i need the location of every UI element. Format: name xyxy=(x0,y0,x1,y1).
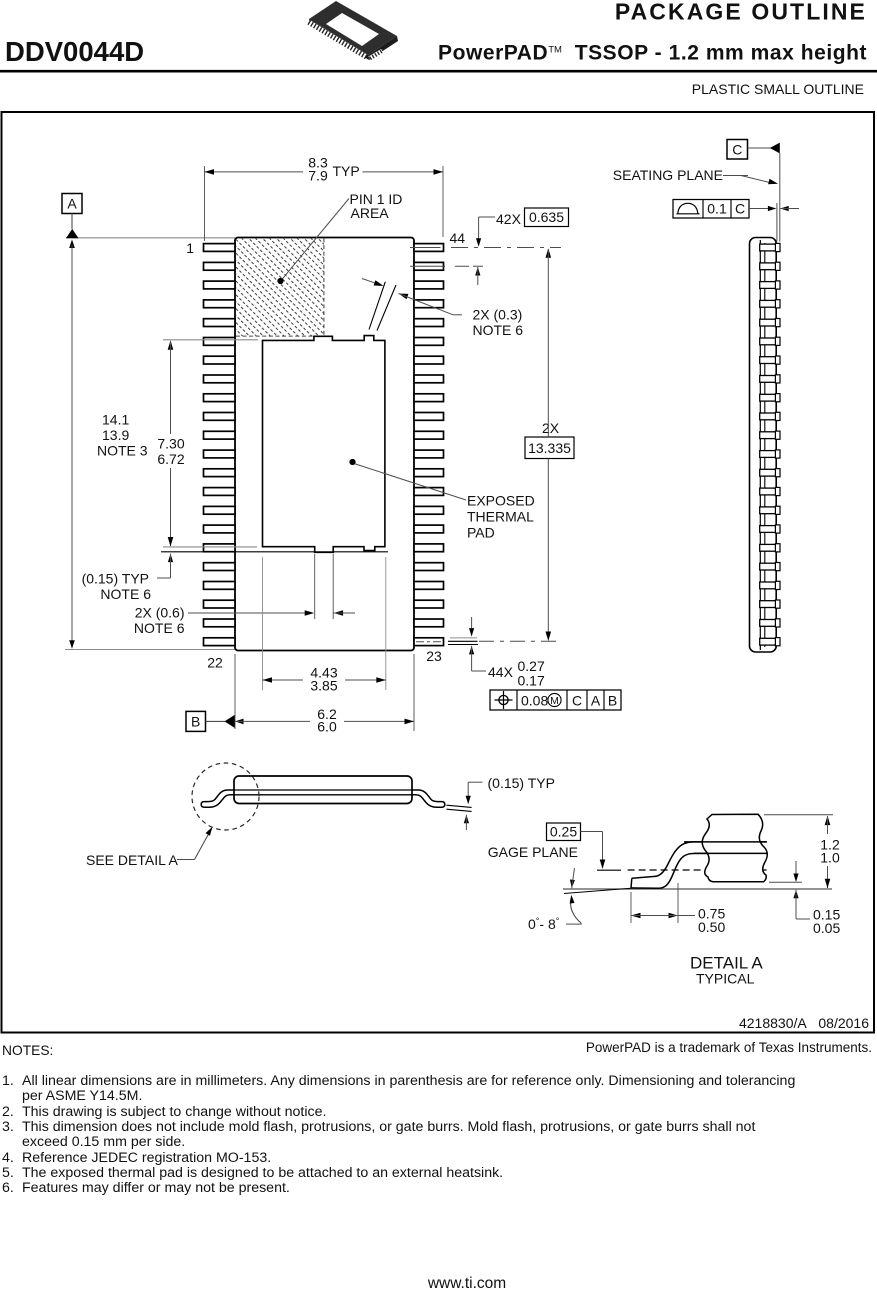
svg-text:13.335: 13.335 xyxy=(528,440,571,456)
svg-text:0.17: 0.17 xyxy=(518,673,545,689)
svg-text:1: 1 xyxy=(186,240,194,256)
svg-text:(0.15) TYP: (0.15) TYP xyxy=(82,571,149,587)
svg-text:GAGE PLANE: GAGE PLANE xyxy=(488,844,578,860)
svg-text:SEE DETAIL A: SEE DETAIL A xyxy=(86,852,178,868)
svg-text:23: 23 xyxy=(426,648,442,664)
svg-text:TYPICAL: TYPICAL xyxy=(696,971,755,987)
svg-text:DDV0044D: DDV0044D xyxy=(5,36,144,67)
svg-text:6.72: 6.72 xyxy=(157,451,184,467)
svg-text:6.0: 6.0 xyxy=(317,719,337,735)
svg-text:13.9: 13.9 xyxy=(102,427,129,443)
svg-text:0°- 8°: 0°- 8° xyxy=(528,916,560,932)
svg-text:NOTE 6: NOTE 6 xyxy=(473,322,524,338)
svg-text:0.635: 0.635 xyxy=(529,209,564,225)
svg-text:7.30: 7.30 xyxy=(157,436,184,452)
svg-text:NOTE 6: NOTE 6 xyxy=(100,586,151,602)
svg-text:AREA: AREA xyxy=(351,205,390,221)
svg-text:2X (0.6): 2X (0.6) xyxy=(135,605,185,621)
svg-text:2X (0.3): 2X (0.3) xyxy=(473,307,523,323)
svg-text:NOTE 6: NOTE 6 xyxy=(134,620,185,636)
svg-text:1.0: 1.0 xyxy=(820,850,840,866)
svg-text:SEATING PLANE: SEATING PLANE xyxy=(613,167,723,183)
svg-text:C: C xyxy=(572,693,582,709)
svg-text:44X: 44X xyxy=(488,664,514,680)
svg-text:PAD: PAD xyxy=(467,525,495,541)
svg-text:2X: 2X xyxy=(542,420,560,436)
svg-text:PowerPADTM TSSOP - 1.2 mm max: PowerPADTM TSSOP - 1.2 mm max height xyxy=(438,42,867,65)
svg-text:M: M xyxy=(550,695,559,707)
svg-text:EXPOSED: EXPOSED xyxy=(467,493,535,509)
svg-text:0.05: 0.05 xyxy=(813,920,840,936)
svg-text:7.9: 7.9 xyxy=(308,168,328,184)
svg-text:22: 22 xyxy=(207,655,223,671)
svg-text:C: C xyxy=(732,141,742,157)
svg-text:14.1: 14.1 xyxy=(102,412,129,428)
svg-text:3.85: 3.85 xyxy=(310,678,337,694)
svg-text:4218830/A 08/2016: 4218830/A 08/2016 xyxy=(739,1015,869,1031)
svg-text:THERMAL: THERMAL xyxy=(467,509,534,525)
svg-text:0.08: 0.08 xyxy=(521,693,548,709)
svg-text:PLASTIC SMALL OUTLINE: PLASTIC SMALL OUTLINE xyxy=(692,81,864,97)
svg-text:PACKAGE OUTLINE: PACKAGE OUTLINE xyxy=(615,0,867,25)
svg-text:(0.15) TYP: (0.15) TYP xyxy=(488,775,555,791)
svg-text:A: A xyxy=(67,196,77,212)
svg-text:44: 44 xyxy=(450,230,466,246)
svg-text:TYP: TYP xyxy=(333,163,360,179)
svg-text:NOTE 3: NOTE 3 xyxy=(97,443,148,459)
svg-text:B: B xyxy=(608,693,617,709)
svg-text:0.25: 0.25 xyxy=(550,824,577,840)
svg-text:C: C xyxy=(735,201,745,217)
svg-text:0.50: 0.50 xyxy=(698,919,725,935)
svg-text:0.1: 0.1 xyxy=(707,201,727,217)
svg-text:42X: 42X xyxy=(496,211,522,227)
svg-text:B: B xyxy=(191,714,200,730)
svg-text:A: A xyxy=(591,693,601,709)
